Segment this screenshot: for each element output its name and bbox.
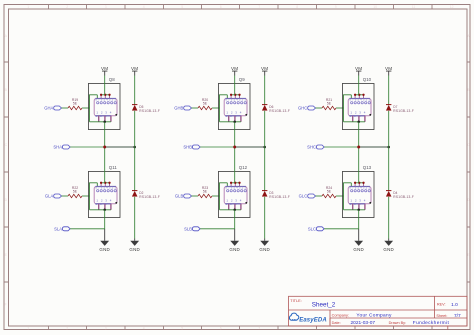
ground GND diode column: [388, 239, 390, 241]
svg-text:Q13: Q13: [363, 165, 372, 170]
svg-text:GHA: GHA: [44, 106, 53, 111]
ground GND Q12: [234, 229, 236, 241]
svg-text:87654321: 87654321: [225, 98, 246, 102]
wire flag to resistor: [62, 107, 69, 109]
wire source to S node: [104, 122, 106, 147]
junction dot source bus: [233, 209, 236, 212]
frame zone tick marks top/bottom: [49, 5, 433, 330]
svg-text:2021-03-07: 2021-03-07: [351, 320, 376, 326]
svg-text:RS1GB-13-F: RS1GB-13-F: [393, 195, 414, 199]
svg-text:RS1GB-13-F: RS1GB-13-F: [269, 109, 290, 113]
resistor R21 5E: [322, 98, 336, 110]
svg-text:RS1GB-13-F: RS1GB-13-F: [139, 109, 160, 113]
svg-text:GLC: GLC: [299, 194, 308, 199]
junction dot source bus: [233, 121, 236, 124]
svg-text:GLA: GLA: [45, 194, 54, 199]
transistor Q8: [88, 77, 120, 130]
junction dots on drain pins: [354, 182, 365, 184]
ground GND Q11: [104, 229, 106, 241]
source bus wire: [220, 121, 241, 123]
wire VM to drain: [104, 76, 106, 95]
junction dots on drain pins: [354, 94, 365, 96]
transistor Q12: [218, 165, 250, 218]
diode D7: [386, 105, 414, 113]
wire flag to resistor: [192, 107, 199, 109]
resistor R22 5E: [68, 186, 82, 198]
svg-text:RS1GB-13-F: RS1GB-13-F: [269, 195, 290, 199]
svg-text:SHB: SHB: [183, 145, 192, 150]
transistor Q9: [218, 77, 250, 130]
svg-text:1 2 3 4: 1 2 3 4: [349, 202, 365, 206]
wire S node to lower diode: [264, 147, 266, 191]
drain bus wire: [101, 182, 109, 184]
svg-text:SHC: SHC: [307, 145, 316, 150]
wire node to diode column: [105, 146, 135, 148]
svg-text:GND: GND: [229, 247, 240, 252]
net flag SHA: [62, 145, 70, 149]
frame zone tick marks left/right: [4, 62, 470, 282]
svg-text:GND: GND: [383, 247, 394, 252]
svg-text:1 2 3 4: 1 2 3 4: [225, 114, 241, 118]
svg-text:5E: 5E: [327, 189, 332, 193]
ground GND diode column: [264, 239, 266, 241]
svg-text:87654321: 87654321: [349, 98, 370, 102]
svg-text:GND: GND: [353, 247, 364, 252]
wire diode to S node: [264, 111, 266, 147]
junction dot source bus: [357, 209, 360, 212]
gate wire wrap: [344, 95, 352, 122]
svg-text:Your Company: Your Company: [356, 313, 392, 319]
svg-text:RS1GB-13-F: RS1GB-13-F: [139, 195, 160, 199]
drain bus wire: [231, 182, 239, 184]
wire resistor to gate: [336, 107, 344, 109]
wire resistor to gate: [212, 107, 220, 109]
net flag SHB: [192, 145, 200, 149]
wire flag to resistor: [62, 195, 69, 197]
svg-text:RS1GB-13-F: RS1GB-13-F: [393, 109, 414, 113]
wire SHB to node: [200, 146, 235, 148]
svg-text:GND: GND: [99, 247, 110, 252]
wire resistor to gate: [212, 195, 220, 197]
wire diode to S node: [388, 111, 390, 147]
resistor R23 5E: [198, 186, 212, 198]
svg-text:1 2 3 4: 1 2 3 4: [95, 202, 111, 206]
wire SLC to node: [324, 228, 359, 230]
source bus wire: [90, 121, 111, 123]
junction dot diode node: [133, 146, 136, 149]
frame zone tick bottom right: [447, 326, 449, 330]
wire source to SL node: [104, 210, 106, 229]
svg-text:87654321: 87654321: [349, 186, 370, 190]
diode D6: [262, 105, 290, 113]
junction dot source bus: [103, 121, 106, 124]
svg-text:1.0: 1.0: [451, 302, 458, 308]
svg-text:VM: VM: [231, 66, 238, 71]
wire diode to S node: [134, 111, 136, 147]
svg-text:1 2 3 4: 1 2 3 4: [95, 114, 111, 118]
svg-text:VM: VM: [101, 66, 108, 71]
transistor Q13: [342, 165, 374, 218]
wire lower diode to GND: [388, 197, 390, 239]
net flag GHA: [54, 106, 62, 110]
svg-text:GHB: GHB: [174, 106, 183, 111]
svg-text:1 2 3 4: 1 2 3 4: [349, 114, 365, 118]
drain bus wire: [355, 94, 363, 96]
junction dots on drain pins: [100, 182, 111, 184]
junction dots on drain pins: [230, 182, 241, 184]
wire resistor to gate: [82, 195, 90, 197]
wire node to diode column: [235, 146, 265, 148]
svg-text:SLA: SLA: [54, 226, 62, 231]
net flag SLB: [192, 227, 200, 231]
svg-text:SLB: SLB: [184, 226, 192, 231]
junction dot diode node: [387, 146, 390, 149]
title block outline: [289, 296, 468, 326]
wire source to S node: [358, 122, 360, 147]
resistor R24 5E: [322, 186, 336, 198]
junction dots on drain pins: [230, 94, 241, 96]
source bus wire: [344, 209, 365, 211]
net flag GLC: [308, 194, 316, 198]
svg-text:REV:: REV:: [437, 303, 446, 307]
junction dot source bus: [357, 121, 360, 124]
drain bus wire: [101, 94, 109, 96]
svg-text:87654321: 87654321: [95, 98, 116, 102]
svg-text:Q10: Q10: [363, 77, 372, 82]
svg-text:5E: 5E: [73, 101, 78, 105]
wire source to SL node: [234, 210, 236, 229]
net flag GHC: [308, 106, 316, 110]
svg-text:5E: 5E: [203, 101, 208, 105]
wire source to SL node: [358, 210, 360, 229]
wire flag to resistor: [192, 195, 199, 197]
wire S node to lower diode: [134, 147, 136, 191]
resistor R19 5E: [68, 98, 82, 110]
gate wire wrap: [344, 183, 352, 210]
junction dot source bus: [103, 209, 106, 212]
svg-text:GHC: GHC: [298, 106, 307, 111]
junction dot diode node: [263, 146, 266, 149]
net flag SLC: [316, 227, 324, 231]
drain bus wire: [355, 182, 363, 184]
wire resistor to gate: [336, 195, 344, 197]
diode D2: [132, 191, 160, 199]
source bus wire: [344, 121, 365, 123]
net flag GLB: [184, 194, 192, 198]
svg-text:TITLE:: TITLE:: [290, 299, 301, 303]
svg-text:Sheet:: Sheet:: [436, 314, 447, 318]
wire S node to drain: [234, 147, 236, 183]
gate wire wrap: [220, 95, 228, 122]
diode D3: [262, 191, 290, 199]
wire lower diode to GND: [134, 197, 136, 239]
net flag GLA: [54, 194, 62, 198]
svg-text:Q8: Q8: [109, 77, 115, 82]
wire SLA to node: [70, 228, 105, 230]
gate wire wrap: [90, 95, 98, 122]
svg-text:7/7: 7/7: [454, 313, 461, 319]
EasyEDA logo: [289, 313, 326, 323]
net flag GHB: [184, 106, 192, 110]
wire SHA to node: [70, 146, 105, 148]
wire S node to lower diode: [388, 147, 390, 191]
svg-text:Q12: Q12: [239, 165, 248, 170]
wire VM to diode: [264, 76, 266, 105]
svg-text:87654321: 87654321: [95, 186, 116, 190]
junction dot S node: [357, 146, 360, 149]
gate wire wrap: [90, 183, 98, 210]
drain bus wire: [231, 94, 239, 96]
transistor Q10: [342, 77, 374, 130]
svg-text:VM: VM: [131, 66, 138, 71]
svg-text:5E: 5E: [203, 189, 208, 193]
svg-text:VM: VM: [385, 66, 392, 71]
wire S node to drain: [358, 147, 360, 183]
wire source to S node: [234, 122, 236, 147]
wire VM to drain: [234, 76, 236, 95]
net flag SHC: [316, 145, 324, 149]
transistor Q11: [88, 165, 120, 218]
svg-text:5E: 5E: [73, 189, 78, 193]
wire VM to diode: [134, 76, 136, 105]
svg-text:EasyEDA: EasyEDA: [299, 317, 327, 323]
junction dots on drain pins: [100, 94, 111, 96]
svg-text:Q11: Q11: [109, 165, 118, 170]
junction dot S node: [103, 146, 106, 149]
svg-text:GND: GND: [129, 247, 140, 252]
source bus wire: [90, 209, 111, 211]
source bus wire: [220, 209, 241, 211]
wire flag to resistor: [316, 107, 323, 109]
wire flag to resistor: [316, 195, 323, 197]
svg-text:Fundeckhermit: Fundeckhermit: [413, 320, 450, 326]
wire VM to drain: [358, 76, 360, 95]
junction dot S node: [233, 146, 236, 149]
wire node to diode column: [359, 146, 389, 148]
svg-text:Company:: Company:: [332, 313, 349, 317]
svg-text:SHA: SHA: [53, 145, 62, 150]
wire SLB to node: [200, 228, 235, 230]
svg-text:GND: GND: [259, 247, 270, 252]
svg-text:SLC: SLC: [308, 226, 316, 231]
ground GND Q13: [358, 229, 360, 241]
wire resistor to gate: [82, 107, 90, 109]
svg-text:Q9: Q9: [239, 77, 245, 82]
resistor R20 5E: [198, 98, 212, 110]
ground GND diode column: [134, 239, 136, 241]
svg-text:5E: 5E: [327, 101, 332, 105]
svg-text:GLB: GLB: [175, 194, 184, 199]
svg-text:Drawn By:: Drawn By:: [389, 321, 407, 325]
wire lower diode to GND: [264, 197, 266, 239]
diode D5: [132, 105, 160, 113]
wire VM to diode: [388, 76, 390, 105]
svg-text:Date:: Date:: [332, 321, 341, 325]
svg-text:1 2 3 4: 1 2 3 4: [225, 202, 241, 206]
svg-text:Sheet_2: Sheet_2: [312, 302, 336, 309]
net flag SLA: [62, 227, 70, 231]
diode D4: [386, 191, 414, 199]
svg-text:VM: VM: [355, 66, 362, 71]
wire S node to drain: [104, 147, 106, 183]
wire SHC to node: [324, 146, 359, 148]
svg-text:87654321: 87654321: [225, 186, 246, 190]
gate wire wrap: [220, 183, 228, 210]
svg-text:VM: VM: [261, 66, 268, 71]
